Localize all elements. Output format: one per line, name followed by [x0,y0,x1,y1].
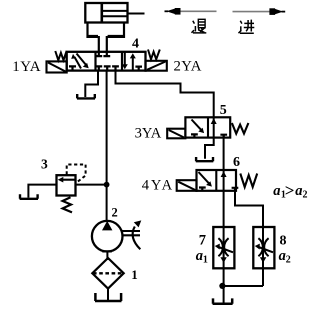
svg-text:1: 1 [131,267,138,282]
svg-text:2YA: 2YA [174,58,202,74]
svg-text:>: > [285,181,295,200]
svg-text:a: a [295,183,302,199]
svg-text:1: 1 [203,255,208,266]
svg-text:2: 2 [303,189,308,200]
svg-text:1YA: 1YA [12,59,41,75]
svg-text:2: 2 [286,255,291,266]
svg-text:7: 7 [199,233,206,249]
svg-text:4: 4 [132,37,139,52]
svg-text:5: 5 [220,103,227,118]
svg-text:8: 8 [280,234,287,249]
svg-text:2: 2 [112,206,118,220]
svg-text:6: 6 [233,155,240,170]
svg-text:3YA: 3YA [135,126,162,142]
svg-text:a: a [273,183,280,199]
svg-text:4YA: 4YA [142,178,174,194]
svg-text:3: 3 [41,157,48,172]
